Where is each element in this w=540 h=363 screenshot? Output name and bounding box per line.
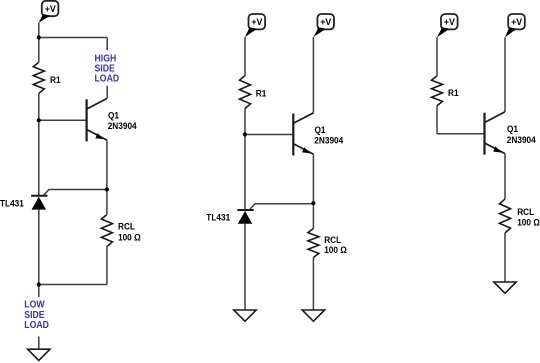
svg-text:Q1: Q1 bbox=[315, 124, 326, 134]
svg-text:LOAD: LOAD bbox=[95, 73, 120, 84]
svg-text:RCL: RCL bbox=[517, 207, 534, 217]
svg-text:R1: R1 bbox=[50, 74, 61, 84]
svg-text:+V: +V bbox=[511, 17, 522, 27]
svg-text:R1: R1 bbox=[448, 88, 459, 98]
svg-text:RCL: RCL bbox=[324, 235, 341, 245]
svg-text:TL431: TL431 bbox=[0, 198, 24, 208]
svg-text:+V: +V bbox=[444, 17, 455, 27]
svg-text:TL431: TL431 bbox=[206, 212, 230, 222]
svg-text:2N3904: 2N3904 bbox=[507, 135, 536, 145]
svg-text:+V: +V bbox=[251, 17, 262, 27]
svg-text:LOAD: LOAD bbox=[24, 319, 49, 330]
svg-text:100 Ω: 100 Ω bbox=[517, 217, 540, 227]
svg-text:+V: +V bbox=[320, 17, 331, 27]
svg-text:SIDE: SIDE bbox=[24, 309, 44, 320]
svg-text:LOW: LOW bbox=[24, 299, 44, 310]
svg-text:2N3904: 2N3904 bbox=[314, 135, 343, 145]
svg-text:100 Ω: 100 Ω bbox=[118, 232, 141, 242]
svg-text:R1: R1 bbox=[256, 88, 267, 98]
svg-text:Q1: Q1 bbox=[108, 110, 119, 120]
svg-text:+V: +V bbox=[45, 4, 56, 14]
svg-text:RCL: RCL bbox=[118, 221, 135, 231]
svg-text:2N3904: 2N3904 bbox=[108, 121, 137, 131]
svg-text:Q1: Q1 bbox=[507, 124, 518, 134]
svg-text:100 Ω: 100 Ω bbox=[324, 245, 347, 255]
